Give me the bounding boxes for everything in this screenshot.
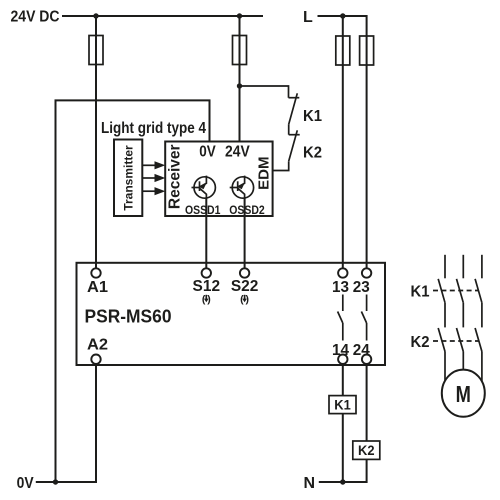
transmitter box <box>114 140 142 217</box>
relay coil K2 <box>353 441 380 459</box>
label (arrow) under S22 <box>240 293 249 305</box>
svg-text:0V: 0V <box>199 144 216 161</box>
svg-text:13: 13 <box>332 279 349 296</box>
K2 NC contact seat <box>289 134 300 136</box>
K2 NC contact blade <box>289 130 298 161</box>
wire between K1 and K2 EDM contacts <box>288 124 290 134</box>
wire A1 branch <box>95 16 97 268</box>
fuse F2 <box>233 36 247 65</box>
svg-text:Receiver: Receiver <box>167 144 184 209</box>
svg-text:24V DC: 24V DC <box>11 9 60 26</box>
junction dot EDM branch <box>237 83 242 88</box>
wire K2 coil to N rail <box>366 459 368 483</box>
terminal S12 <box>202 268 211 277</box>
contactor K1 pole 1 <box>438 255 445 303</box>
terminal A2 <box>91 355 100 364</box>
terminal 13 <box>338 268 347 277</box>
terminal 24 <box>362 355 371 364</box>
svg-text:A1: A1 <box>87 279 108 296</box>
fuse F4 <box>360 36 374 65</box>
svg-text:Transmitter: Transmitter <box>122 145 136 211</box>
svg-text:OSSD1: OSSD1 <box>185 203 221 217</box>
wires between K1 and K2 contactor poles <box>445 303 482 328</box>
motor M <box>442 370 485 417</box>
24V DC rail <box>62 15 263 17</box>
wires K2 contactor to motor <box>445 352 482 382</box>
svg-text:K1: K1 <box>334 397 351 413</box>
wire 23 branch <box>366 15 368 268</box>
OSSD2 output wire <box>244 198 246 268</box>
OSSD1 output wire <box>205 198 207 268</box>
svg-text:Light grid type 4: Light grid type 4 <box>101 120 206 137</box>
svg-text:24V: 24V <box>225 144 250 161</box>
contact 23-24 <box>361 295 366 341</box>
junction dot 24V rail / A1 branch <box>93 13 98 18</box>
relay coil K1 <box>329 396 356 414</box>
K1 NC contact blade <box>289 93 298 124</box>
junction dot 0V rail <box>53 479 58 484</box>
svg-text:K2: K2 <box>358 442 375 458</box>
transistor Q2 OSSD2 <box>230 176 254 199</box>
wire A2 to 0V rail <box>36 364 96 482</box>
light beam arrow 3 <box>142 187 165 195</box>
junction dot N rail <box>340 479 345 484</box>
K1 NC contact seat <box>289 97 300 99</box>
K1 linkage dashed line <box>433 290 479 292</box>
svg-text:K1: K1 <box>411 284 430 301</box>
wire EDM branch to K1 contact <box>240 86 289 98</box>
wire K1 coil to N rail <box>342 414 344 483</box>
wire 24 to K2 coil <box>366 364 368 441</box>
wire 14 to K1 coil <box>342 364 344 396</box>
wire 13 branch <box>342 16 344 268</box>
contactor K2 pole 2 <box>457 328 464 352</box>
L rail <box>318 15 367 17</box>
svg-text:K2: K2 <box>303 145 322 162</box>
transistor Q1 OSSD1 <box>192 176 216 199</box>
relay PSR-MS60 box <box>77 263 386 365</box>
svg-text:K1: K1 <box>303 108 322 125</box>
contactor K2 pole 3 <box>475 328 482 352</box>
svg-text:M: M <box>456 382 471 408</box>
K2 linkage dashed line <box>433 340 479 342</box>
contactor K1 pole 3 <box>475 255 482 303</box>
svg-text:L: L <box>303 9 313 26</box>
svg-text:EDM: EDM <box>256 157 273 190</box>
fuse F1 <box>89 36 103 65</box>
contactor K2 pole 1 <box>438 328 445 352</box>
terminal A1 <box>91 268 100 277</box>
svg-text:N: N <box>304 475 316 492</box>
svg-text:23: 23 <box>353 279 370 296</box>
svg-text:OSSD2: OSSD2 <box>229 203 265 217</box>
receiver box <box>165 142 272 217</box>
N rail <box>319 481 367 483</box>
svg-text:0V: 0V <box>17 475 34 492</box>
label (arrow) under S12 <box>202 293 211 305</box>
contact 13-14 <box>338 295 343 341</box>
junction dot L rail <box>340 13 345 18</box>
receiver 0V wire to 0V rail <box>56 100 210 482</box>
terminal 14 <box>338 355 347 364</box>
svg-text:A2: A2 <box>87 337 108 354</box>
svg-text:PSR-MS60: PSR-MS60 <box>85 307 172 327</box>
wire receiver 24V branch <box>239 16 241 142</box>
fuse F3 <box>336 36 350 65</box>
contactor K1 pole 2 <box>457 255 464 303</box>
terminal S22 <box>240 268 249 277</box>
wire K2 contact to EDM pin <box>273 161 289 170</box>
light beam arrow 1 <box>142 161 165 169</box>
svg-text:K2: K2 <box>411 334 430 351</box>
light beam arrow 2 <box>142 174 165 182</box>
junction dot 24V rail / receiver branch <box>237 13 242 18</box>
terminal 23 <box>362 268 371 277</box>
